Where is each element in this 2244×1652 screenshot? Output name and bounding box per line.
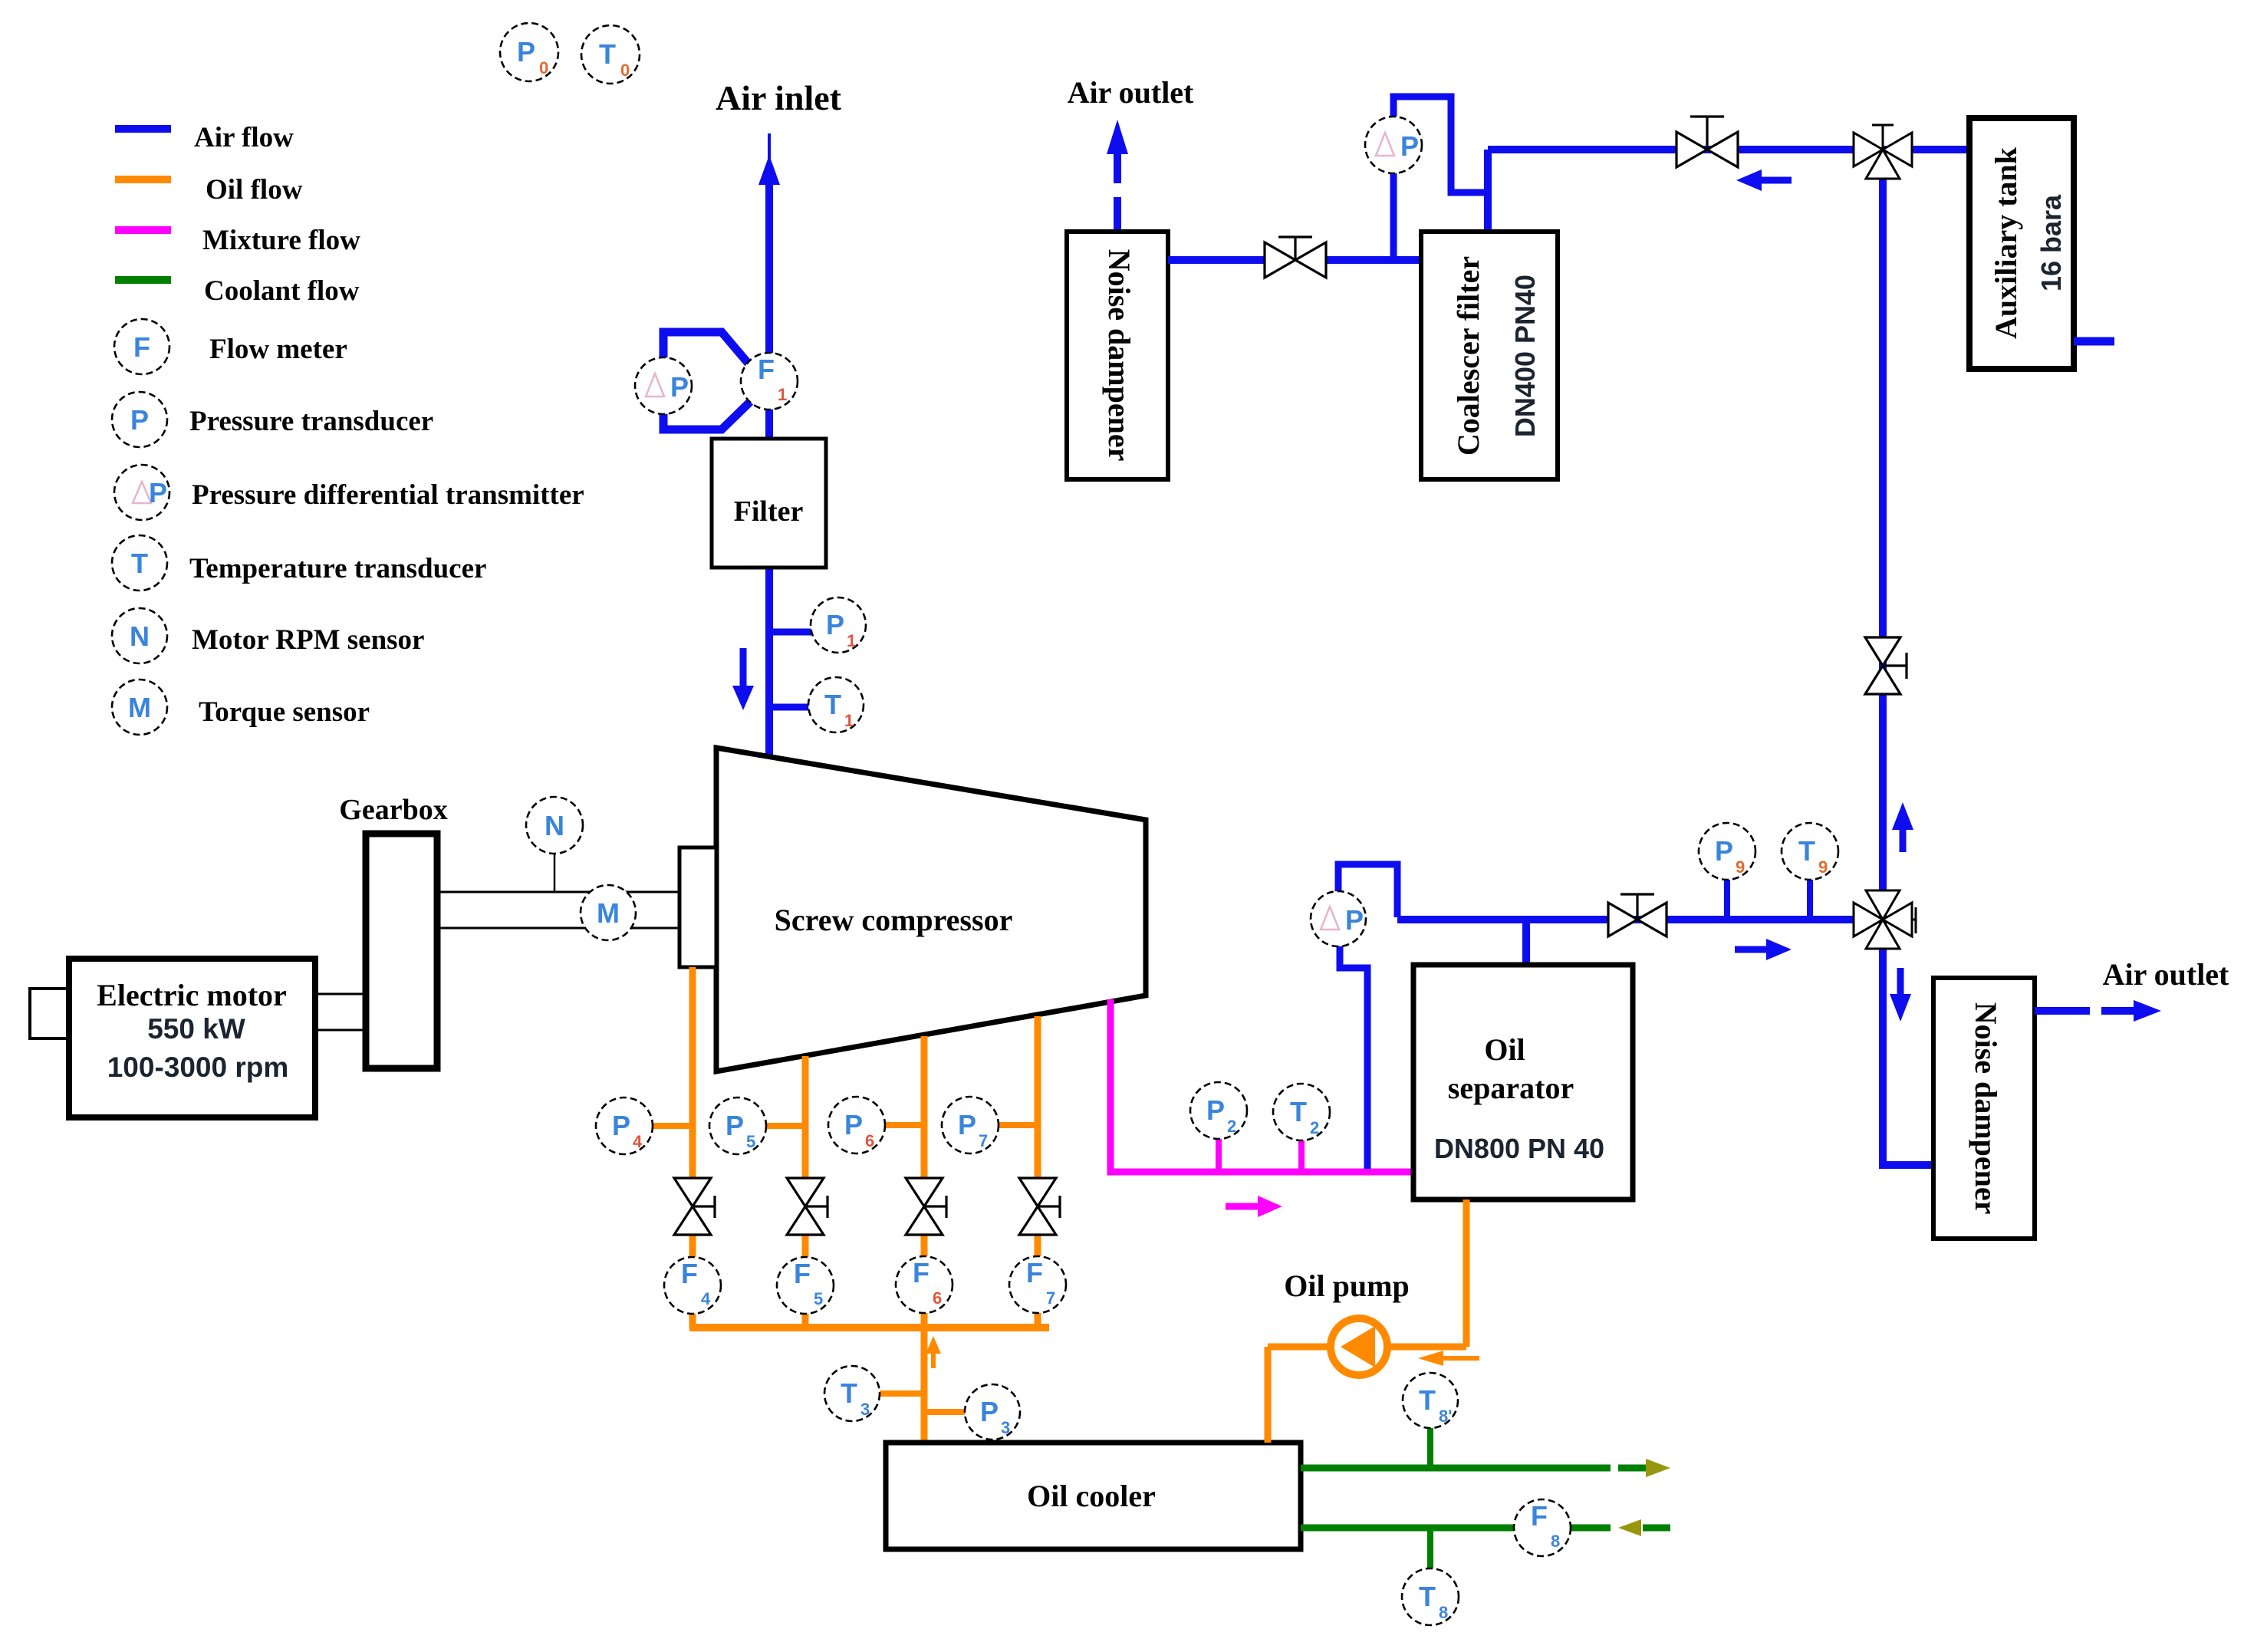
wire: auxiliary tank bottom stub — [2074, 337, 2114, 346]
svg-text:100-3000 rpm: 100-3000 rpm — [107, 1051, 289, 1083]
wire: air inlet pipe upper thin segment — [768, 133, 771, 163]
instrument P1 — [811, 597, 866, 653]
oil separator — [1413, 965, 1633, 1200]
svg-text:P: P — [844, 1109, 863, 1140]
legend: temperature transducer symbol T — [112, 535, 486, 591]
svg-text:16 bara: 16 bara — [2035, 194, 2067, 291]
svg-text:F: F — [133, 331, 150, 363]
legend: torque sensor symbol M — [112, 680, 370, 735]
node P6 stub — [885, 1122, 924, 1128]
coalescer filter — [1421, 232, 1558, 479]
wire: coalescer top riser — [1484, 150, 1492, 232]
svg-text:8': 8' — [1439, 1407, 1452, 1426]
svg-text:F: F — [1531, 1500, 1548, 1532]
svg-text:separator: separator — [1448, 1071, 1574, 1105]
noise dampener 2 — [1933, 978, 2035, 1239]
svg-text:9: 9 — [1736, 857, 1745, 877]
arrow: leftward flow arrow on top line — [1736, 169, 1792, 191]
wire: dP3 lower tap down to mixture line — [1340, 946, 1367, 1169]
arrow: upward flow arrow on right main — [1892, 802, 1913, 852]
svg-text:P: P — [517, 36, 535, 67]
arrow: oil flow arrow to pump — [1418, 1351, 1479, 1366]
wire: to noise dampener 2 — [1879, 1161, 1933, 1169]
svg-text:T: T — [841, 1377, 857, 1409]
legend: flow meter symbol F — [114, 319, 347, 374]
svg-text:1: 1 — [844, 711, 854, 730]
svg-text:Screw compressor: Screw compressor — [775, 903, 1013, 937]
arrow: coolant line 1 dashed arrow — [1618, 1459, 1670, 1477]
gearbox — [339, 794, 447, 1068]
node P3 stub — [924, 1409, 966, 1415]
svg-text:1: 1 — [847, 631, 856, 650]
arrow: mixture flow arrow — [1226, 1196, 1282, 1217]
node T8p stub — [1427, 1427, 1433, 1468]
instrument N — [526, 797, 583, 854]
svg-text:P: P — [670, 371, 689, 403]
arrow: downward flow arrow after filter — [732, 648, 754, 710]
wire: pipe filter to compressor — [765, 560, 773, 755]
wire: dP3 upper tap zigzag — [1338, 864, 1397, 917]
wire: separator air line to cross valve 2 — [1397, 916, 1883, 923]
instrument N stem — [554, 853, 556, 892]
filter box — [712, 439, 826, 568]
svg-text:DN800 PN 40: DN800 PN 40 — [1434, 1133, 1604, 1164]
instrument F5 — [777, 1257, 834, 1314]
node P1 stub — [769, 629, 811, 636]
svg-text:Air outlet: Air outlet — [1068, 75, 1194, 110]
wire: oil injection line 3 — [921, 1036, 928, 1179]
arrow: air outlet dashed up arrow — [1107, 120, 1128, 229]
svg-text:P: P — [149, 477, 167, 508]
arrow: rightward flow arrow on separator air line — [1735, 939, 1792, 960]
instrument T3 — [824, 1366, 880, 1421]
valve V4 — [674, 1178, 715, 1235]
svg-text:Air inlet: Air inlet — [716, 78, 842, 117]
svg-text:7: 7 — [979, 1131, 988, 1150]
svg-text:Torque sensor: Torque sensor — [199, 696, 370, 728]
valve V5 — [787, 1178, 828, 1235]
oil cooler — [886, 1443, 1301, 1549]
instrument P6 — [828, 1097, 885, 1153]
svg-text:9: 9 — [1818, 857, 1828, 877]
instrument P7 — [942, 1097, 999, 1153]
svg-text:F: F — [913, 1257, 930, 1288]
svg-text:1: 1 — [778, 385, 787, 404]
valve V4h on separator air line — [1608, 894, 1667, 936]
svg-text:Gearbox: Gearbox — [339, 794, 447, 826]
wire: noise dampener 2 outlet — [2035, 1007, 2090, 1015]
wire: oil injection line 2 — [802, 1056, 809, 1179]
instrument dP1 — [635, 357, 692, 414]
instrument P3 — [965, 1384, 1020, 1440]
svg-text:P: P — [612, 1110, 630, 1141]
svg-text:Noise dampener: Noise dampener — [1102, 249, 1137, 462]
wire: separator top pipe — [1522, 920, 1530, 963]
svg-text:8: 8 — [1439, 1603, 1448, 1622]
svg-text:F: F — [758, 354, 775, 385]
valve V2 on top air line — [1676, 117, 1738, 167]
svg-text:F: F — [681, 1258, 698, 1289]
legend: coolant flow swatch — [115, 275, 360, 307]
node P9 stub — [1724, 880, 1730, 920]
instrument dP3 — [1311, 891, 1366, 946]
svg-text:Pressure transducer: Pressure transducer — [189, 406, 433, 437]
svg-text:6: 6 — [933, 1288, 942, 1308]
cross valve CV1 — [1854, 125, 1912, 179]
arrow: air inlet up arrowhead — [758, 155, 780, 185]
node P2 stub — [1216, 1137, 1222, 1172]
node T1 stub — [769, 704, 809, 711]
svg-text:550 kW: 550 kW — [147, 1013, 245, 1045]
svg-text:P: P — [1400, 130, 1419, 162]
legend: air flow swatch — [115, 122, 294, 153]
svg-text:T: T — [131, 548, 148, 579]
instrument M — [581, 885, 636, 940]
svg-text:Oil: Oil — [1484, 1032, 1525, 1067]
wire: noise dampener 1 to valve — [1168, 256, 1267, 264]
wire: coolant line 1 (outlet) — [1301, 1465, 1611, 1472]
svg-text:Coolant flow: Coolant flow — [204, 275, 360, 307]
svg-text:P: P — [1715, 835, 1733, 867]
wire: dP2 riser to pipe — [1390, 172, 1397, 260]
node P4 stub — [653, 1123, 693, 1129]
svg-text:DN400 PN40: DN400 PN40 — [1509, 275, 1541, 437]
valve V1 — [1265, 237, 1326, 278]
svg-text:7: 7 — [1046, 1288, 1055, 1308]
oil pump — [1331, 1318, 1387, 1375]
svg-text:T: T — [1290, 1096, 1307, 1127]
node T8 stub — [1427, 1528, 1433, 1569]
legend: oil flow swatch — [115, 174, 303, 206]
valve V7 — [1019, 1178, 1060, 1235]
svg-text:0: 0 — [539, 58, 548, 77]
svg-text:Electric motor: Electric motor — [97, 978, 287, 1012]
svg-text:M: M — [128, 692, 151, 723]
svg-text:P: P — [826, 609, 844, 640]
wire: dP2 upper zigzag to coalescer riser — [1393, 97, 1488, 193]
wire: dP1-F1 bypass loop — [663, 332, 752, 429]
instrument P2 — [1190, 1082, 1247, 1139]
coupling block at compressor inlet shaft — [679, 847, 716, 967]
wire: valve to coalescer filter — [1324, 256, 1425, 264]
instrument dP2 — [1365, 117, 1422, 173]
svg-text:P: P — [1345, 904, 1364, 936]
svg-text:Flow meter: Flow meter — [209, 334, 347, 365]
wire: cross valve 1 to auxiliary tank — [1883, 146, 1969, 153]
svg-text:Oil cooler: Oil cooler — [1027, 1479, 1156, 1513]
electric motor shaft stub — [30, 989, 69, 1038]
svg-text:6: 6 — [865, 1131, 874, 1150]
svg-text:4: 4 — [701, 1289, 711, 1308]
svg-text:P: P — [980, 1396, 999, 1427]
svg-text:2: 2 — [1227, 1117, 1236, 1136]
svg-text:T: T — [1419, 1384, 1436, 1416]
instrument P5 — [709, 1097, 766, 1154]
svg-text:8: 8 — [1551, 1532, 1560, 1551]
svg-text:F: F — [1026, 1257, 1043, 1288]
instrument T2 — [1273, 1084, 1330, 1140]
instrument T8' — [1403, 1373, 1458, 1428]
svg-text:Mixture flow: Mixture flow — [202, 225, 360, 256]
wire: top air line to auxiliary tank — [1488, 146, 1854, 153]
svg-text:Oil pump: Oil pump — [1284, 1269, 1409, 1303]
instrument F1 — [741, 353, 798, 410]
legend: pressure differential transmitter symbol dP — [114, 465, 584, 520]
svg-text:3: 3 — [860, 1400, 870, 1419]
svg-text:Air flow: Air flow — [194, 122, 294, 153]
instrument P0 — [500, 23, 558, 81]
svg-text:Temperature transducer: Temperature transducer — [189, 553, 486, 584]
svg-text:Coalescer filter: Coalescer filter — [1451, 256, 1486, 456]
svg-text:T: T — [824, 689, 841, 720]
node T2 stub — [1298, 1139, 1305, 1172]
svg-text:T: T — [1419, 1581, 1436, 1612]
instrument P9 — [1699, 823, 1755, 880]
svg-text:5: 5 — [746, 1132, 755, 1151]
svg-text:T: T — [599, 38, 616, 70]
instrument T0 — [581, 25, 640, 84]
legend: mixture flow swatch — [115, 225, 360, 256]
svg-text:M: M — [597, 897, 620, 929]
arrow: air outlet dashed arrow right — [2101, 1000, 2161, 1022]
shaft gearbox to compressor — [437, 892, 679, 928]
instrument F4 — [664, 1257, 721, 1314]
node P5 stub — [766, 1123, 805, 1129]
legend: motor RPM sensor symbol N — [112, 608, 424, 663]
wire: oil injection line 4 — [1035, 1016, 1041, 1179]
legend: pressure transducer symbol P — [112, 392, 433, 447]
wire: separator bottom oil line to pump and cooler — [1268, 1200, 1466, 1443]
svg-text:Pressure differential transmit: Pressure differential transmitter — [192, 479, 584, 511]
svg-text:N: N — [545, 810, 564, 841]
svg-text:Motor RPM sensor: Motor RPM sensor — [192, 624, 424, 656]
cross valve CV2 — [1854, 890, 1916, 949]
instrument T9 — [1782, 823, 1838, 880]
wire: oil injection line 1 — [689, 967, 696, 1179]
wire: mixture line from compressor to separator — [1110, 999, 1415, 1172]
svg-text:Air outlet: Air outlet — [2103, 957, 2229, 992]
svg-text:P: P — [130, 404, 149, 436]
svg-text:Noise dampener: Noise dampener — [1969, 1002, 2003, 1215]
svg-text:P: P — [1206, 1094, 1225, 1126]
instrument P4 — [596, 1097, 653, 1154]
svg-text:Auxiliary tank: Auxiliary tank — [1989, 146, 2023, 339]
svg-text:3: 3 — [1001, 1418, 1010, 1437]
noise dampener 1 — [1067, 232, 1168, 479]
auxiliary tank — [1969, 118, 2074, 369]
svg-text:P: P — [726, 1110, 744, 1141]
svg-text:2: 2 — [1310, 1118, 1319, 1137]
node T3 stub — [880, 1390, 924, 1397]
svg-text:T: T — [1798, 835, 1815, 867]
node T9 stub — [1807, 880, 1813, 920]
wire: right main vertical pipe — [1879, 173, 1887, 1165]
wire: oil manifold — [689, 1324, 1049, 1331]
shaft motor to gearbox — [315, 994, 366, 1030]
wire: coolant line 2 (inlet) — [1301, 1525, 1611, 1532]
electric motor — [69, 959, 315, 1117]
arrow: downward flow arrow below cross valve 2 — [1890, 968, 1911, 1022]
valve V3 on right main vertical — [1865, 637, 1907, 694]
instrument F7 — [1009, 1256, 1066, 1313]
svg-text:F: F — [794, 1258, 811, 1289]
svg-text:P: P — [958, 1109, 976, 1140]
svg-text:4: 4 — [633, 1132, 643, 1151]
instrument F6 — [896, 1256, 953, 1313]
instrument T1 — [808, 677, 864, 732]
svg-text:N: N — [130, 620, 150, 652]
valve V6 — [906, 1178, 946, 1235]
svg-text:5: 5 — [814, 1289, 823, 1308]
svg-text:Oil flow: Oil flow — [206, 174, 303, 206]
wire: air inlet vertical pipe — [765, 181, 773, 449]
node P7 stub — [999, 1122, 1038, 1128]
arrow: oil up-flow arrow on drop line — [926, 1336, 941, 1368]
instrument F8 — [1514, 1499, 1571, 1556]
svg-text:Filter: Filter — [734, 495, 804, 528]
instrument T8 — [1402, 1568, 1459, 1625]
arrow: coolant line 2 dashed arrow — [1618, 1519, 1670, 1536]
svg-text:0: 0 — [620, 61, 630, 80]
screw compressor body — [716, 748, 1146, 1071]
